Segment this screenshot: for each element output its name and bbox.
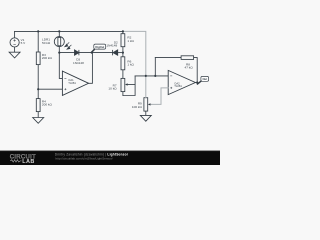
svg-text:50 kΩ: 50 kΩ [42, 41, 51, 45]
wire: OA2 minus input horizontal [135, 75, 168, 77]
R7 wiper arrow [125, 83, 127, 85]
wire: R2 bottom to node C [122, 47, 124, 57]
svg-text:LAB: LAB [22, 159, 34, 165]
node: rail / R3 [37, 30, 39, 32]
svg-text:TL081: TL081 [68, 81, 76, 85]
resistor R4 [36, 99, 40, 112]
op-amp OA1 [62, 71, 88, 95]
wire: node A to OA1 plus input [38, 88, 62, 90]
wire: D3 cathode to D2 cathode [79, 52, 113, 54]
wire: light path R9 wiper to OA2 plus input [151, 88, 168, 105]
wire: LDR1 bottom down to OA1 minus input [59, 47, 62, 79]
wire: R8 right to output riser [194, 58, 198, 83]
potentiometer R9 [144, 98, 148, 111]
wire: R3 top drop from rail [37, 31, 39, 52]
LDR1 light arrows [65, 42, 72, 49]
CircuitLab logo [10, 155, 36, 165]
resistor R2 [121, 34, 125, 47]
wire: D2 anode to node C [118, 52, 123, 54]
R9 wiper arrow [148, 103, 150, 105]
svg-text:1 kΩ: 1 kΩ [127, 63, 134, 67]
diode D3 [75, 50, 79, 55]
diode D2 [113, 50, 118, 55]
ground (R9) [140, 115, 151, 121]
node: descender / OA2 minus wire [145, 75, 147, 77]
wire: R7 wiper to right [126, 84, 135, 86]
resistor R3 [36, 52, 40, 65]
svg-text:TL081: TL081 [174, 84, 182, 88]
ground (R4) [33, 118, 44, 124]
wire: R9 bottom to ground [145, 111, 147, 115]
svg-text:1 kΩ: 1 kΩ [127, 39, 134, 43]
V1 plus sign [13, 39, 15, 44]
net flag DigOut [91, 44, 106, 53]
node: DigOut / OA1 output [91, 52, 93, 54]
ground (V1) [9, 52, 20, 58]
svg-text:200 kΩ: 200 kΩ [42, 56, 53, 60]
wire: V1 bottom to ground [14, 47, 16, 52]
wire: OA1 output riser [89, 53, 93, 84]
OA1 plus marker [64, 88, 66, 90]
svg-text:http://circuitlab.com/c/m29xw/: http://circuitlab.com/c/m29xw/LightSenso… [56, 157, 113, 161]
svg-text:10 kΩ: 10 kΩ [108, 87, 117, 91]
svg-text:1N4148: 1N4148 [73, 61, 84, 65]
OA2 plus marker [170, 87, 172, 89]
OA1 minus marker [64, 78, 66, 90]
wire: node B to D3 anode [59, 52, 74, 54]
node B: LDR1 / D3 wire [58, 52, 60, 54]
voltage source V1 [10, 38, 19, 47]
resistor R6 [121, 57, 125, 70]
V1 minus sign [13, 44, 15, 46]
wire: OA2 output to riser [195, 82, 197, 84]
wire: feedback horizontal to R8 left [155, 57, 181, 59]
wire: light unconnected rail extension to R9 [123, 31, 146, 97]
svg-text:47 kΩ: 47 kΩ [185, 66, 194, 70]
net flag Out [197, 76, 209, 84]
wire: R2 stub from rail [122, 31, 124, 33]
svg-text:DigOut: DigOut [95, 45, 104, 49]
wire: R9 wiper stub [149, 103, 151, 105]
wire: feedback descender to minus net [154, 58, 156, 76]
junction dots [37, 30, 198, 90]
node: feedback / OA2 minus wire [154, 75, 156, 77]
wire: R7 bottom stub [122, 92, 124, 96]
wire: R4 bottom to ground [37, 112, 39, 118]
svg-text:200 kΩ: 200 kΩ [42, 103, 53, 107]
wire: V1 top riser [14, 31, 16, 38]
node A: R3 / R4 / OA1 plus [37, 88, 39, 90]
op-amp OA2 [168, 70, 195, 94]
wire: R6 bottom to R7 top [122, 70, 124, 79]
wire: +5V top rail [15, 30, 123, 32]
wire: OA2 minus net down to R7 wiper and bottom [123, 76, 135, 96]
svg-text:Out: Out [202, 77, 207, 81]
wire: R3 to R4 segment [37, 65, 39, 99]
svg-text:100 kΩ: 100 kΩ [132, 105, 143, 109]
svg-text:1N4148: 1N4148 [106, 44, 117, 48]
footer bar [0, 151, 220, 166]
node C: D2 / R2 / R6 [122, 52, 124, 54]
wire: LDR1 top drop from rail [58, 31, 60, 36]
resistor R8 [181, 56, 194, 60]
node: rail / R2 [122, 30, 124, 32]
photoresistor LDR1 [54, 37, 64, 47]
node: rail / LDR1 [58, 30, 60, 32]
OA2 minus marker [170, 76, 172, 89]
potentiometer R7 [121, 78, 125, 91]
node: OA2 output / riser [196, 81, 198, 83]
